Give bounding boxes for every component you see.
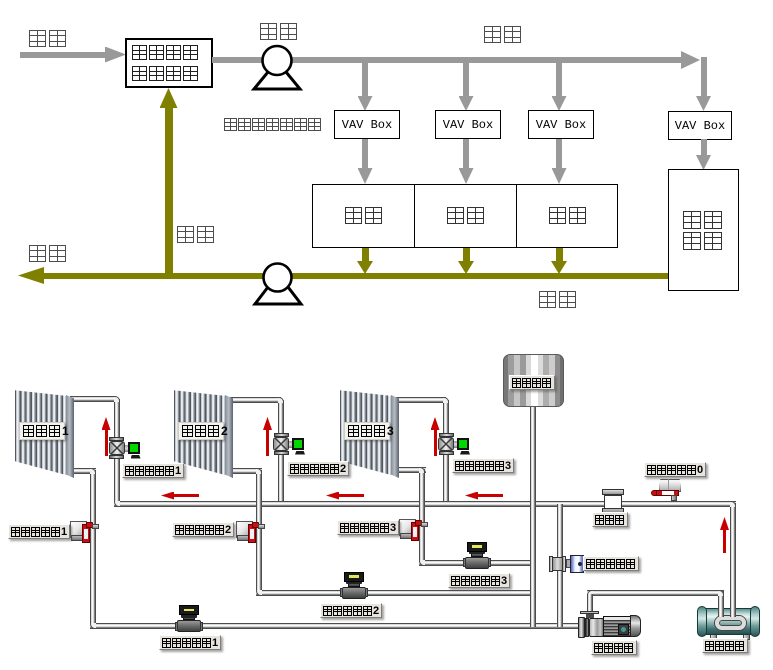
label 新风 (fresh air) (29, 30, 71, 48)
supply riser radiator3 (443, 400, 449, 501)
room 1 return arrow (362, 248, 369, 262)
supply duct corner drop (701, 57, 707, 96)
return downpipe radiator2 (256, 470, 262, 594)
heat meter 热量计 (602, 489, 624, 495)
fresh air duct (20, 52, 107, 58)
arrow VAV2 to room (463, 139, 469, 169)
label 排风 (exhaust) (29, 245, 71, 263)
label 电动调节阀2 (287, 461, 349, 476)
return riser to AHU (165, 107, 173, 276)
pipe elbow flow2 left (256, 590, 262, 596)
VAV box 4 (668, 111, 732, 140)
electric heater 电加热器 (710, 632, 717, 640)
label 房间 room 2 (447, 207, 491, 225)
flow arrow left 2 (338, 494, 364, 497)
label 房间 room 1 (345, 207, 389, 225)
label 送风 (supply air) (484, 26, 526, 44)
flow arrow up valve2 (266, 429, 269, 456)
pipe elbow r2 return (256, 468, 262, 474)
label 房间 room 3 (549, 207, 593, 225)
temperature sensor 温度传感器3 (399, 519, 416, 536)
fan F2 symbol (251, 260, 305, 306)
pipe elbow supply left end (114, 501, 120, 507)
rooms container box (312, 184, 618, 248)
pipe elbow r3 supply (443, 397, 449, 403)
AHU box 空气热湿处理系统 (125, 38, 213, 88)
return bottom horizontal (90, 623, 582, 629)
label 温度传感器0 (644, 462, 706, 477)
VAV box 1 (334, 110, 400, 139)
pipe elbow r1 return (90, 468, 96, 474)
room 3 return arrow (556, 248, 563, 262)
flow arrow up valve1 (105, 429, 108, 456)
fan F1 symbol (250, 43, 304, 93)
arrow VAV1 to room (362, 139, 368, 169)
valve 电动调节阀1 (109, 437, 124, 441)
radiator 散热器2 (174, 389, 225, 475)
VAV box 2 (435, 110, 501, 139)
valve 电动调节阀3 (439, 433, 454, 437)
flow arrow up heater riser (723, 529, 726, 553)
room divider 1 (414, 184, 415, 248)
label 热量计 (592, 512, 628, 527)
pipe elbow pump outlet (587, 590, 593, 596)
box 其余房间 other rooms (668, 169, 739, 291)
return downpipe radiator3 (419, 469, 425, 564)
differential pressure sensor 差压传感器 (550, 557, 565, 571)
temperature sensor 温度传感器0 (659, 479, 681, 492)
return mid horizontal flow3 (419, 560, 535, 566)
label 电动调节阀1 (122, 463, 184, 478)
label 膨胀水箱 (509, 375, 555, 390)
pipe elbow flow3 left (419, 560, 425, 566)
return downpipe radiator1 (90, 470, 96, 626)
return mid horizontal flow2 (256, 590, 536, 596)
return stub radiator3 (394, 467, 426, 473)
VAV box 3 (528, 110, 594, 139)
supply riser radiator2 (278, 400, 284, 501)
room divider 2 (516, 184, 517, 248)
differential pressure pipe (557, 504, 563, 627)
supply stub radiator2 (228, 397, 281, 403)
valve 电动调节阀2 (274, 433, 289, 437)
label 循环水泵 (591, 640, 637, 655)
flow sensor 流量传感器3 (465, 557, 489, 569)
pipe elbow r2 supply (278, 397, 284, 403)
return stub radiator2 (228, 468, 262, 474)
temperature sensor 温度传感器1 (70, 521, 87, 538)
fresh air duct arrowhead (105, 47, 126, 63)
supply stub radiator3 (394, 397, 446, 403)
label 流量传感器1 (159, 635, 221, 650)
radiator 散热器3 (340, 389, 391, 475)
label 电动调节阀3 (452, 458, 514, 473)
label 差压传感器 (583, 556, 639, 571)
flow sensor 流量传感器2 (342, 587, 366, 599)
duct drop arrow 4 (698, 95, 704, 97)
label 回风 (return) riser (177, 226, 219, 244)
flow sensor 流量传感器1 (177, 620, 201, 632)
return stub radiator1 (70, 468, 96, 474)
circulation pump 循环水泵 (587, 594, 593, 617)
duct drop arrow 1 (362, 63, 368, 96)
expansion tank downpipe (530, 405, 536, 627)
return riser arrowhead (160, 88, 178, 108)
label 温度传感器2 (172, 522, 234, 537)
pipe elbow r3 return (419, 467, 425, 473)
label 温度传感器3 (337, 520, 399, 535)
return duct horizontal (30, 273, 668, 279)
label 温度传感器1 (8, 524, 70, 539)
supply pipe main horizontal (114, 501, 737, 507)
flow arrow left 1 (173, 494, 199, 497)
label 变风量末端装置 (224, 118, 334, 133)
flow arrow left 3 (477, 494, 503, 497)
supply stub radiator1 (70, 396, 116, 402)
supply riser radiator1 (114, 399, 120, 501)
supply duct arrowhead right (681, 51, 700, 69)
arrow VAV3 to room (556, 139, 562, 169)
label 流量传感器3 (448, 573, 510, 588)
radiator 散热器1 (15, 389, 66, 475)
pipe elbow r1 supply (114, 396, 120, 402)
supply pipe right riser (730, 503, 736, 611)
duct drop arrow 3 (556, 63, 562, 96)
label 电加热器 (702, 638, 748, 653)
arrow VAV4 to other rooms (701, 139, 707, 157)
return duct left arrowhead (18, 267, 44, 284)
duct drop arrow 2 (463, 63, 469, 96)
expansion tank 膨胀水箱 (503, 354, 564, 407)
temperature sensor 温度传感器2 (236, 521, 253, 538)
flow arrow up valve3 (434, 429, 437, 456)
label 风机 (fan) (260, 23, 302, 41)
pipe elbow supply right (730, 501, 736, 507)
heater inlet downpipe (718, 591, 724, 621)
pump outlet horizontal (587, 590, 725, 596)
label 流量传感器2 (320, 603, 382, 618)
pipe elbow heater inlet (718, 590, 724, 596)
pipe elbow bottom left (90, 623, 96, 629)
supply duct from AHU to right (212, 57, 684, 63)
label 回风 (return) bottom (539, 291, 581, 309)
room 2 return arrow (463, 248, 470, 262)
